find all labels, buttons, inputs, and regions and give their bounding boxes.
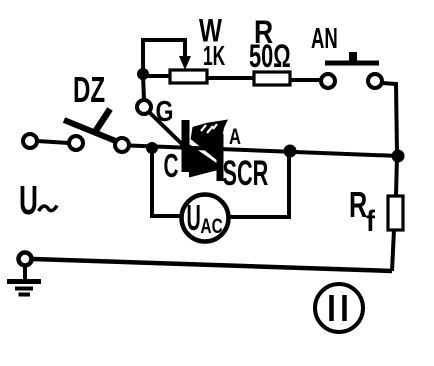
junction node right rail	[392, 150, 405, 163]
resistor Rf body	[388, 196, 403, 230]
svg-text:f: f	[366, 205, 375, 239]
wire: UAC loop right	[229, 151, 289, 217]
figure number circle 11	[315, 284, 363, 332]
ground bar 2	[15, 287, 33, 291]
svg-text:1K: 1K	[203, 40, 225, 71]
terminal circle AN right	[368, 74, 382, 88]
svg-text:SCR: SCR	[223, 155, 269, 193]
wire: Rf down to bottom rail	[392, 230, 394, 271]
wire: gate diagonal to SCR cathode bar	[149, 112, 185, 147]
svg-text:AN: AN	[311, 23, 338, 55]
push button AN bar	[325, 61, 379, 66]
terminal circle AN left	[321, 74, 335, 88]
SCR anode bar	[217, 134, 224, 181]
switch DZ blade	[64, 120, 123, 144]
junction node top-left	[137, 68, 149, 80]
figure number digits 11	[332, 295, 345, 321]
svg-text:DZ: DZ	[73, 70, 105, 110]
meter UAC circle	[182, 195, 229, 242]
resistor R body	[254, 72, 290, 85]
wire: main horizontal rail	[129, 146, 399, 157]
svg-text:U: U	[187, 199, 201, 239]
terminal circle switch left	[69, 136, 83, 150]
wire: AN right terminal down to right rail junction	[382, 83, 397, 153]
ground bar 3	[19, 293, 31, 297]
svg-text:C: C	[164, 147, 179, 184]
wire: junction down to gate terminal	[143, 75, 144, 100]
svg-text:U: U	[19, 178, 38, 223]
terminal circle switch right	[115, 138, 129, 152]
wire: top-left loop from junction up and over to wiper	[143, 40, 185, 75]
ground stem	[23, 266, 27, 281]
svg-text:R: R	[349, 185, 367, 226]
push button AN stem	[349, 52, 357, 61]
junction node SCR-anode rail	[284, 145, 297, 158]
terminal circle G	[137, 100, 151, 114]
wiper arrowhead of potentiometer W	[179, 56, 191, 70]
switch DZ handle tick	[95, 109, 110, 132]
wire: potentiometer to resistor R	[207, 76, 254, 80]
wire: junction to potentiometer left	[143, 74, 171, 78]
svg-text:AC: AC	[201, 214, 223, 238]
SCR lower triangle	[189, 144, 218, 178]
SCR upper triangle (hatched)	[191, 120, 229, 162]
junction node switch-SCR	[146, 142, 158, 154]
svg-text:50Ω: 50Ω	[249, 38, 291, 74]
terminal circle ground	[19, 253, 32, 266]
terminal circle source top	[23, 134, 37, 148]
SCR hatch speckles	[201, 124, 217, 133]
potentiometer W body	[170, 70, 207, 83]
svg-text:A: A	[229, 125, 241, 150]
wire: resistor R to button AN left terminal	[290, 78, 321, 82]
wire: source top terminal to switch left terminal	[37, 141, 69, 143]
SCR cathode bar	[182, 120, 190, 172]
tilde of U~	[39, 206, 58, 212]
wire: right rail down to Rf	[396, 156, 397, 196]
wire: bottom rail	[33, 259, 392, 271]
ground bar 1	[7, 279, 41, 284]
wire: UAC loop left	[152, 148, 181, 216]
